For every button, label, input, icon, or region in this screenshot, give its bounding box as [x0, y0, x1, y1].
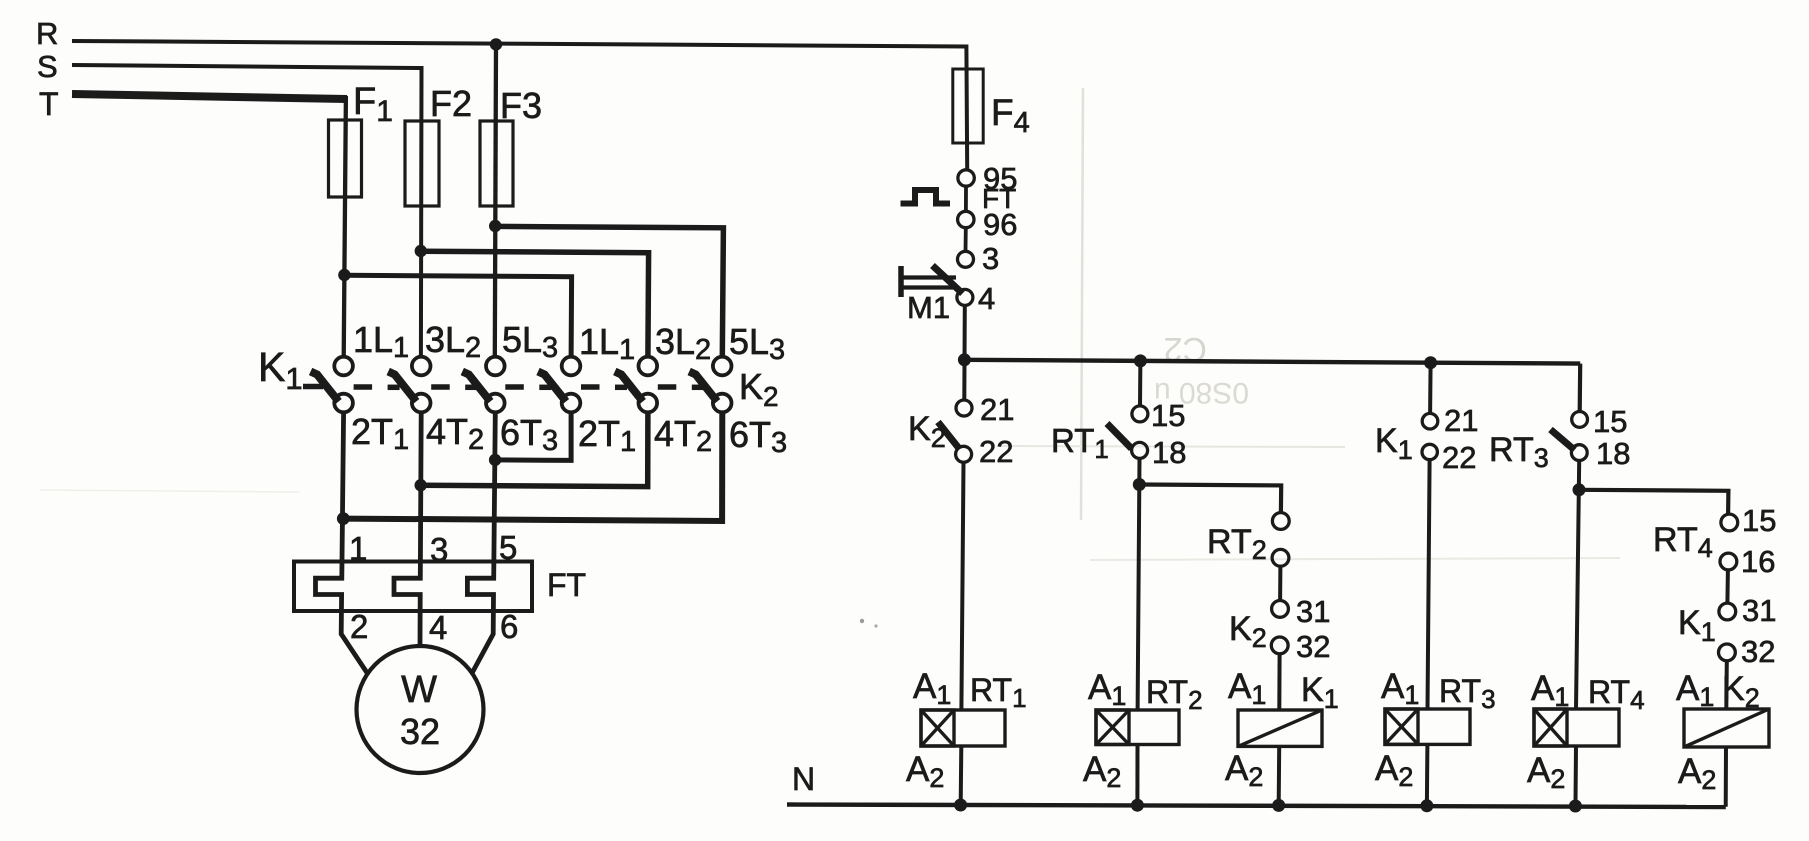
svg-text:A1: A1: [1676, 669, 1714, 712]
svg-text:31: 31: [1296, 594, 1330, 629]
svg-text:4T2: 4T2: [654, 413, 712, 458]
svg-text:A2: A2: [906, 750, 944, 793]
node N-2: [1131, 799, 1144, 812]
wire RT2 to K2 31: [1278, 566, 1282, 600]
wire T to F1: [344, 96, 346, 357]
svg-text:22: 22: [1442, 440, 1476, 475]
svg-text:6T3: 6T3: [729, 414, 787, 459]
node R-F3 tap: [490, 38, 502, 50]
FT heater phase 2 + wire to motor: [394, 412, 421, 647]
wire K1 coil to N: [1277, 746, 1282, 803]
svg-text:A1: A1: [1088, 668, 1126, 711]
svg-text:K2: K2: [908, 410, 946, 453]
contactor K1 contact 3L2-4T2: [388, 357, 430, 413]
svg-text:15: 15: [1742, 503, 1776, 538]
svg-text:5: 5: [499, 529, 517, 566]
svg-text:A2: A2: [1083, 750, 1121, 793]
node 1: [337, 512, 350, 525]
svg-text:96: 96: [983, 207, 1017, 242]
contactor coil K2: [1684, 709, 1769, 747]
svg-text:3: 3: [430, 531, 448, 568]
wire phase T: [72, 94, 347, 99]
wire 18 to RT4 coil: [1576, 461, 1579, 710]
wire phase S: [72, 65, 422, 357]
FT heater phase 1 + wire to motor: [316, 412, 368, 674]
svg-text:2T1: 2T1: [351, 411, 409, 456]
control bus wire: [964, 360, 1580, 364]
timer coil RT2: [1096, 710, 1179, 745]
svg-text:K2: K2: [1722, 670, 1760, 713]
wire 32 to K1 coil: [1277, 654, 1281, 710]
svg-text:2T1: 2T1: [578, 413, 636, 458]
svg-text:A1: A1: [1531, 669, 1569, 712]
fuse F3: [480, 121, 513, 206]
svg-text:A1: A1: [913, 667, 951, 710]
motor M: [357, 646, 484, 773]
svg-text:A2: A2: [1527, 751, 1565, 794]
svg-text:M1: M1: [907, 290, 950, 325]
svg-text:RT3: RT3: [1439, 673, 1496, 714]
svg-text:RT1: RT1: [970, 672, 1027, 713]
wire phase R: [72, 41, 967, 170]
node bus-1: [958, 353, 971, 366]
wire branch to RT4 contact: [1579, 490, 1728, 514]
thermal overload FT box: [294, 562, 532, 612]
svg-text:2: 2: [350, 608, 368, 645]
contactor K1 contact 21-22: [1422, 413, 1438, 459]
svg-text:N: N: [792, 761, 815, 797]
svg-text:16: 16: [1741, 544, 1775, 579]
svg-text:F2: F2: [430, 83, 472, 124]
wire K2 coil to N: [1724, 747, 1728, 807]
svg-text:RT4: RT4: [1653, 521, 1713, 563]
svg-text:21: 21: [980, 392, 1014, 427]
timer contact RT4 15-16: [1720, 514, 1738, 570]
svg-text:18: 18: [1152, 435, 1186, 470]
contactor K1 contact 1L1-2T1: [311, 357, 353, 413]
svg-text:A2: A2: [1375, 749, 1413, 792]
svg-text:RT2: RT2: [1146, 674, 1203, 715]
wire 4T2(K2) to node 3: [421, 412, 648, 487]
wire 22 to RT1 coil: [961, 462, 963, 710]
wire RT3 coil to N: [1425, 744, 1430, 803]
wire 6T3(K2) to node 1: [343, 412, 722, 521]
svg-text:S: S: [37, 49, 58, 84]
svg-text:31: 31: [1742, 593, 1776, 628]
wire bus to RT1 contact: [1138, 361, 1142, 406]
FT trip symbol: [901, 190, 951, 204]
wire RT4 coil to N: [1574, 746, 1579, 803]
node bus-2: [1134, 354, 1147, 367]
M1 blade: [933, 266, 963, 294]
svg-text:4: 4: [429, 609, 447, 646]
svg-text:32: 32: [1741, 634, 1775, 669]
node N-3: [1272, 799, 1285, 812]
wire 22 to RT3 coil: [1428, 460, 1430, 709]
svg-text:K1: K1: [1375, 422, 1413, 465]
wire RT2 coil to N: [1135, 745, 1139, 804]
contactor coil K1: [1238, 710, 1322, 746]
svg-text:5L3: 5L3: [729, 321, 785, 366]
svg-text:F3: F3: [500, 85, 542, 126]
timer coil RT4: [1534, 709, 1619, 746]
node bus-3: [1424, 356, 1437, 369]
contactor K2 contact 5L3-6T3: [689, 357, 731, 413]
svg-text:K2: K2: [739, 366, 779, 412]
svg-text:32: 32: [400, 711, 440, 752]
pushbutton M1 contact 3-4: [957, 251, 974, 305]
svg-text:6: 6: [500, 608, 518, 645]
node F3 branch: [489, 220, 501, 232]
svg-text:32: 32: [1296, 629, 1330, 664]
contactor K2 contact 1L1-2T1: [538, 357, 580, 413]
node branch RT4: [1573, 483, 1586, 496]
svg-text:4T2: 4T2: [426, 411, 484, 456]
svg-text:22: 22: [979, 434, 1013, 469]
node 5: [489, 454, 501, 466]
svg-text:F4: F4: [991, 92, 1030, 139]
svg-text:A1: A1: [1228, 667, 1266, 710]
fuse F1: [329, 120, 362, 197]
svg-text:F1: F1: [353, 81, 393, 128]
node N-4: [1420, 799, 1433, 812]
node F2 branch: [415, 245, 427, 257]
contactor K1 contact 5L3-6T3: [462, 357, 504, 413]
svg-text:5L3: 5L3: [502, 319, 558, 364]
svg-text:RT1: RT1: [1051, 422, 1109, 464]
svg-text:3L2: 3L2: [425, 319, 481, 364]
svg-text:1L1: 1L1: [353, 319, 409, 364]
svg-text:1: 1: [349, 530, 367, 567]
wire F3 to 5L3(K2): [495, 226, 723, 357]
timer contact RT1 15-18: [1107, 406, 1148, 459]
wire branch to RT2 contact: [1139, 485, 1281, 513]
wire bus corner to RT3 15: [1578, 364, 1583, 412]
svg-text:W: W: [401, 669, 437, 711]
node N-5: [1569, 800, 1582, 813]
svg-text:K1: K1: [1301, 671, 1339, 714]
svg-text:T: T: [39, 86, 59, 122]
FT NC contact 95-96: [958, 170, 975, 228]
wire 32 to K2 coil: [1724, 661, 1729, 709]
node N-1: [954, 799, 967, 812]
svg-text:3: 3: [982, 241, 999, 276]
svg-text:R: R: [36, 16, 58, 51]
wire R to F3: [495, 44, 496, 357]
svg-text:K2: K2: [1229, 610, 1267, 653]
wire bus to K1 21: [1428, 363, 1433, 414]
timer contact RT2: [1272, 513, 1289, 567]
wire F2 to 3L2(K2): [421, 251, 649, 357]
timer contact RT3 15-18: [1551, 412, 1588, 461]
svg-text:A1: A1: [1381, 667, 1419, 710]
timer coil RT3: [1385, 709, 1470, 744]
fuse F4: [953, 69, 983, 143]
svg-text:FT: FT: [547, 567, 586, 603]
svg-text:RT4: RT4: [1588, 674, 1645, 715]
mechanical linkage dashed line: [303, 384, 704, 390]
wire 2T1(K2) to node 5: [495, 412, 571, 461]
svg-text:18: 18: [1596, 436, 1630, 471]
svg-text:6T3: 6T3: [500, 412, 558, 457]
wire 18 to RT2 coil: [1138, 458, 1140, 710]
timer coil RT1: [921, 710, 1005, 746]
node branch RT2: [1133, 478, 1146, 491]
svg-text:K1: K1: [1678, 604, 1716, 647]
wire 16 to K1 31: [1725, 570, 1730, 603]
fuse F2: [405, 121, 439, 206]
wire F1 to 1L1(K2): [344, 275, 571, 357]
wire 4 to bus: [962, 305, 967, 400]
FT heater phase 3 + wire to motor: [467, 412, 495, 674]
svg-text:4: 4: [978, 281, 995, 316]
svg-text:15: 15: [1151, 398, 1185, 433]
svg-text:A2: A2: [1678, 752, 1716, 795]
wire 96 to 3: [964, 228, 968, 251]
contactor K2 NC 31-32: [1271, 601, 1288, 654]
contactor K1 NC 31-32: [1719, 603, 1736, 661]
N rail: [787, 805, 1726, 808]
node F1 branch: [338, 269, 350, 281]
contactor K2 contact 3L2-4T2: [615, 357, 657, 413]
node 3: [415, 479, 427, 491]
svg-text:RT3: RT3: [1489, 431, 1549, 473]
svg-text:RT2: RT2: [1207, 523, 1267, 565]
svg-text:3L2: 3L2: [655, 321, 711, 366]
svg-text:21: 21: [1444, 403, 1478, 438]
svg-text:1L1: 1L1: [579, 321, 635, 366]
wire RT1 coil to N: [959, 746, 964, 803]
svg-text:15: 15: [1593, 404, 1627, 439]
svg-text:A2: A2: [1225, 749, 1263, 792]
contactor K2 NC contact 21-22: [938, 400, 972, 462]
svg-text:K1: K1: [258, 344, 303, 396]
M1 actuator: [901, 266, 956, 297]
